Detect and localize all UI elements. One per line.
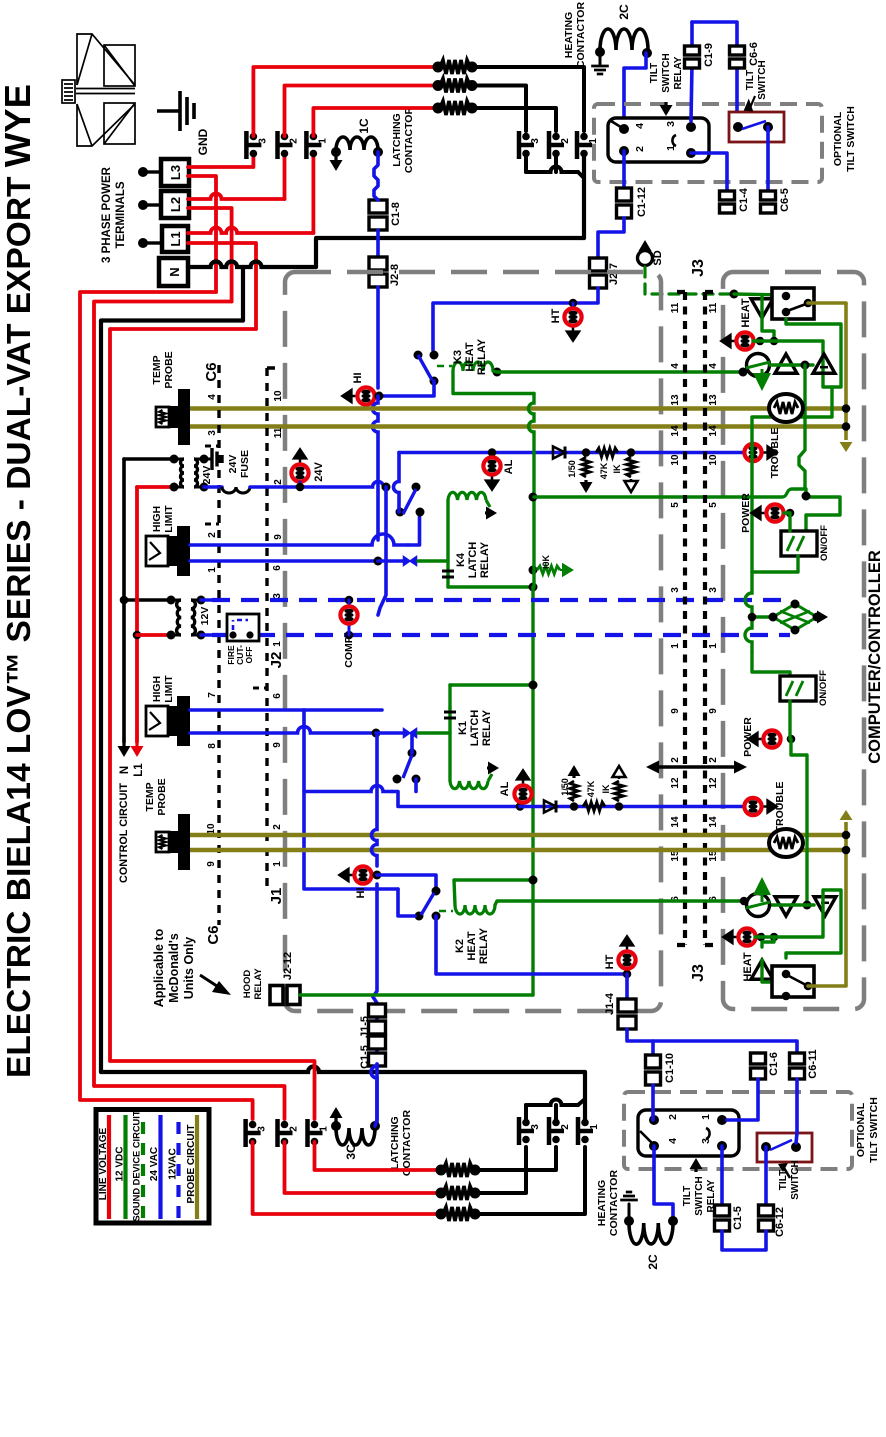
triangle connector (upper) bbox=[751, 299, 773, 318]
wire L1 to contact 1 (red) bbox=[188, 228, 313, 234]
svg-text:K3: K3 bbox=[452, 350, 464, 364]
legend SOUND DEVICE CIRCUIT (green dashed) bbox=[141, 1122, 145, 1219]
svg-text:TILT: TILT bbox=[682, 1186, 693, 1206]
svg-text:LIMIT: LIMIT bbox=[163, 675, 175, 703]
svg-text:6: 6 bbox=[272, 565, 283, 571]
wire 3C contact2 to heater row2 (red) bbox=[285, 1142, 442, 1193]
coil 3C bbox=[336, 1128, 375, 1145]
svg-text:9: 9 bbox=[206, 861, 217, 867]
svg-text:TERMINALS: TERMINALS bbox=[115, 181, 127, 248]
wire green drop hops rows A B bbox=[745, 572, 752, 652]
svg-text:11: 11 bbox=[670, 302, 681, 313]
triangle pair (upper) bbox=[775, 354, 797, 373]
svg-text:OFF: OFF bbox=[244, 647, 254, 664]
svg-text:2: 2 bbox=[634, 146, 646, 152]
wire contact1 to heater3 (red) bbox=[313, 108, 438, 136]
connector J1-5 bbox=[369, 1004, 386, 1017]
svg-text:8: 8 bbox=[207, 743, 218, 749]
svg-text:TILT SWITCH: TILT SWITCH bbox=[845, 106, 857, 172]
contact 2C-1 bbox=[575, 131, 580, 159]
svg-text:1: 1 bbox=[670, 643, 681, 649]
svg-text:2: 2 bbox=[289, 138, 300, 144]
wire heat cluster drop (green) bbox=[752, 387, 832, 572]
fan / blower symbol bbox=[62, 34, 135, 146]
connector C1-10 bbox=[646, 1055, 661, 1068]
ground GND bbox=[157, 109, 180, 112]
tilt switch (bottom, maroon box) bbox=[757, 1133, 812, 1162]
relay box (upper computer) bbox=[772, 288, 814, 319]
svg-text:ON/OFF: ON/OFF bbox=[819, 525, 830, 561]
wire K3 coil output row 372 (green) bbox=[493, 368, 502, 377]
svg-text:4: 4 bbox=[667, 1138, 679, 1144]
wire relay box lower to olive bbox=[808, 984, 846, 988]
svg-text:RELAY: RELAY bbox=[253, 968, 264, 1000]
svg-text:1: 1 bbox=[588, 138, 599, 144]
svg-text:2: 2 bbox=[272, 824, 283, 830]
ground at 24V transformer bbox=[204, 458, 211, 461]
wire J2 pin2 routing arrow (black) bbox=[656, 765, 737, 769]
heater element 4 (bottom) bbox=[436, 1165, 447, 1176]
svg-text:47K: 47K bbox=[599, 462, 609, 479]
wire relay pin2 to C1-12 (blue) bbox=[622, 151, 626, 189]
legend 12VAC (blue dashed) bbox=[176, 1122, 180, 1219]
svg-text:TILT SWITCH: TILT SWITCH bbox=[868, 1097, 880, 1163]
contact 2C-3 bottom bbox=[517, 1117, 522, 1145]
svg-text:14: 14 bbox=[670, 816, 681, 828]
svg-text:SD: SD bbox=[652, 250, 664, 265]
svg-text:K2: K2 bbox=[454, 939, 466, 953]
contact 2C-2 bbox=[547, 131, 552, 159]
svg-text:ON/OFF: ON/OFF bbox=[818, 670, 829, 706]
high limit thermostat (upper) bbox=[177, 526, 190, 576]
svg-text:COMPUTER/CONTROLLER: COMPUTER/CONTROLLER bbox=[866, 550, 884, 764]
svg-text:J2: J2 bbox=[268, 652, 285, 669]
svg-text:Applicable to: Applicable to bbox=[152, 928, 166, 1007]
svg-text:TILT: TILT bbox=[649, 63, 660, 83]
wire K2 NC stub (blue) bbox=[398, 889, 415, 916]
wire heater3 to 2C contact 2 (black) bbox=[472, 108, 556, 131]
contact 2C-3 bbox=[517, 131, 522, 159]
fuse 24V (wavy) bbox=[204, 485, 222, 489]
svg-text:OPTIONAL: OPTIONAL bbox=[855, 1102, 867, 1157]
wire K2 coil left leg (green) bbox=[454, 880, 533, 905]
triangle pair (lower) bbox=[775, 897, 797, 916]
wire relay box pin to olive drop bbox=[808, 301, 846, 305]
svg-text:9: 9 bbox=[670, 708, 681, 714]
wire 3C contact1 to heater row1 (red) bbox=[315, 1142, 442, 1170]
svg-text:3: 3 bbox=[700, 1138, 712, 1144]
svg-text:1/50: 1/50 bbox=[567, 460, 577, 478]
wire N feed to transformers (black) bbox=[124, 457, 174, 461]
wire J2-7 to K3 switch (blue) bbox=[433, 288, 598, 350]
svg-text:J1-4: J1-4 bbox=[604, 992, 616, 1015]
svg-text:C1-9: C1-9 bbox=[703, 43, 715, 67]
wire 12VAC row B (blue dashed) bbox=[201, 633, 212, 637]
svg-text:11: 11 bbox=[273, 427, 284, 438]
svg-text:COMP: COMP bbox=[343, 636, 355, 668]
wire heat lower row (green) bbox=[755, 890, 841, 958]
C6 branch stubs (dashed) bbox=[205, 446, 267, 688]
svg-text:HI: HI bbox=[352, 373, 364, 384]
wire HI2 to K2 switch (blue) bbox=[377, 875, 436, 889]
svg-text:9: 9 bbox=[272, 742, 283, 748]
wire J2-8 down to HI junction (blue) bbox=[376, 287, 380, 388]
transformer 24V bbox=[181, 459, 185, 487]
svg-text:L1: L1 bbox=[133, 763, 145, 777]
svg-text:C1-6: C1-6 bbox=[768, 1052, 780, 1076]
svg-text:J3: J3 bbox=[690, 964, 707, 982]
wire triangles to 5-row (green) bbox=[799, 365, 805, 489]
heater symbol in oval (lower) bbox=[769, 829, 803, 857]
svg-text:12: 12 bbox=[670, 777, 681, 789]
wire C1-6 to relay pin1 (blue) bbox=[727, 1079, 758, 1120]
heater element 6 bbox=[436, 1209, 447, 1220]
wire N trunk (black) bbox=[188, 262, 316, 268]
wire contact2 to heater2 (red) bbox=[285, 86, 439, 137]
svg-text:HEATING: HEATING bbox=[563, 12, 575, 58]
svg-text:2: 2 bbox=[708, 757, 719, 763]
heater element 3 bbox=[433, 103, 444, 114]
svg-text:POWER: POWER bbox=[740, 493, 752, 533]
wire high limit 2 bottom (blue) bbox=[190, 727, 376, 734]
svg-text:10: 10 bbox=[708, 454, 719, 466]
wire power lower to triangles (green) bbox=[791, 739, 807, 905]
svg-text:SWITCH: SWITCH bbox=[661, 53, 672, 92]
svg-text:I0K: I0K bbox=[541, 555, 551, 570]
contact 2C-2 bottom bbox=[547, 1117, 552, 1145]
switch K4 (blue) bbox=[382, 483, 391, 492]
connector C1-8 bbox=[369, 200, 387, 213]
svg-text:13: 13 bbox=[708, 394, 719, 406]
svg-text:RELAY: RELAY bbox=[673, 56, 684, 89]
dashed box control circuit bbox=[285, 272, 661, 1011]
connector line J3 right (dashed) bbox=[705, 292, 718, 945]
svg-text:2: 2 bbox=[273, 479, 284, 485]
svg-text:LINE VOLTAGE: LINE VOLTAGE bbox=[98, 1127, 109, 1200]
svg-text:IK: IK bbox=[601, 784, 611, 794]
dashed box optional tilt switch (bottom) bbox=[624, 1092, 852, 1169]
diamond bridge (12VAC) bbox=[752, 615, 773, 618]
resistor 47K (lower) bbox=[583, 802, 605, 811]
svg-text:OPTIONAL: OPTIONAL bbox=[832, 111, 844, 166]
wire hood relay row (green) bbox=[300, 993, 533, 996]
coil K1 latch relay (green) bbox=[448, 708, 451, 781]
lamp COMP bbox=[345, 596, 354, 605]
contact 1C-1 bbox=[304, 131, 309, 159]
svg-text:C1-10: C1-10 bbox=[664, 1053, 676, 1083]
switch K3 (blue) bbox=[414, 351, 423, 360]
wire relay pin1 to C1-4 (blue) bbox=[691, 153, 727, 193]
svg-text:LATCH: LATCH bbox=[467, 542, 479, 579]
svg-text:TROUBLE: TROUBLE bbox=[769, 428, 781, 479]
wire SD to computer (green dashed) bbox=[645, 267, 734, 294]
wire fuse to K4 area (blue) with hop bbox=[250, 482, 386, 488]
wire tilt switch to C6-5 (blue) bbox=[766, 127, 770, 193]
wire K1 row (blue) bbox=[372, 729, 381, 738]
wire K2 output 6-row (green) bbox=[495, 901, 744, 905]
wire K1 green row (green) bbox=[450, 683, 533, 686]
lamp HEAT (upper) bbox=[736, 332, 753, 349]
SD sound device bbox=[643, 250, 646, 254]
svg-text:CONTACTOR: CONTACTOR bbox=[403, 107, 415, 174]
wire AL row to trouble lower (blue) bbox=[520, 805, 745, 809]
legend PROBE CIRCUIT (olive) bbox=[195, 1115, 199, 1219]
svg-text:47K: 47K bbox=[586, 780, 596, 797]
latch tick K1 (black) bbox=[444, 712, 456, 718]
svg-text:C6-12: C6-12 bbox=[774, 1207, 786, 1237]
switch K1 (blue) bbox=[393, 775, 402, 784]
wire blue to 3C coil bbox=[371, 1064, 377, 1126]
switch ON/OFF (upper) bbox=[781, 531, 817, 556]
svg-text:J2-12: J2-12 bbox=[282, 952, 294, 980]
contact 2C-1 bottom bbox=[576, 1117, 581, 1145]
legend 24 VAC (blue) bbox=[158, 1115, 162, 1219]
svg-text:L1: L1 bbox=[168, 231, 183, 246]
svg-text:12VAC: 12VAC bbox=[168, 1148, 179, 1180]
heater element 1 (top) bbox=[433, 62, 444, 73]
svg-text:10: 10 bbox=[273, 390, 284, 402]
heater element 5 bbox=[436, 1188, 447, 1199]
svg-text:N: N bbox=[119, 766, 131, 774]
svg-text:HEATING: HEATING bbox=[596, 1180, 608, 1226]
svg-text:C6: C6 bbox=[205, 925, 222, 944]
legend 12 VDC (green) bbox=[123, 1115, 127, 1219]
svg-text:L2: L2 bbox=[168, 197, 183, 212]
svg-text:6: 6 bbox=[272, 693, 283, 699]
triangle connector (lower) bbox=[751, 960, 773, 979]
wire high limit 2 branch down (blue) bbox=[304, 710, 398, 889]
svg-text:1: 1 bbox=[589, 1124, 600, 1130]
connector C6-12 bbox=[759, 1205, 774, 1216]
connector J2-8 bbox=[369, 257, 387, 270]
svg-text:J2-8: J2-8 bbox=[389, 264, 401, 286]
svg-text:3: 3 bbox=[530, 1124, 541, 1130]
svg-text:LATCHING: LATCHING bbox=[389, 1116, 401, 1169]
terminal N bbox=[159, 258, 188, 286]
wire main blue vertical lower bbox=[372, 733, 378, 866]
wire 24V row to trouble (blue) bbox=[399, 451, 745, 455]
wire bowtie to K4 leg (green) bbox=[418, 559, 448, 562]
coil 2C heating contactor (bottom) bbox=[629, 1223, 673, 1244]
svg-text:PROBE: PROBE bbox=[163, 351, 175, 388]
wire bowtie to K1 leg (green) bbox=[418, 731, 450, 734]
latch tick K4 (black) bbox=[442, 571, 454, 577]
lamp HI (lower) bbox=[354, 866, 371, 883]
heater element 2 bbox=[433, 80, 444, 91]
svg-text:POWER: POWER bbox=[742, 717, 754, 757]
ground at 2C coil bottom bbox=[628, 1204, 631, 1221]
svg-text:J1: J1 bbox=[268, 888, 285, 905]
wire probe circuit upper line 1 (olive) bbox=[190, 406, 843, 411]
ground at 2C coil bbox=[599, 56, 602, 64]
coil K3 heat relay (green) bbox=[453, 362, 493, 371]
svg-text:LIMIT: LIMIT bbox=[163, 505, 175, 533]
lamp AL (lower) bbox=[516, 802, 525, 811]
svg-text:10: 10 bbox=[670, 454, 681, 466]
svg-text:14: 14 bbox=[670, 425, 681, 437]
resistor 1/50 (lower) bbox=[570, 802, 579, 811]
svg-text:L3: L3 bbox=[168, 165, 183, 180]
svg-text:RELAY: RELAY bbox=[476, 338, 488, 375]
mech link K2 (green dashed) bbox=[439, 910, 453, 913]
circle indicator (lower) bbox=[747, 894, 770, 917]
wire 1C coil to C1-8 to J2-8 (blue) bbox=[374, 152, 378, 200]
wire C1-10 to relay pin2 (blue) bbox=[651, 1085, 655, 1120]
wire heater6 to 2C contact 1 bottom (black) bbox=[475, 1147, 585, 1214]
svg-text:C1-5: C1-5 bbox=[732, 1206, 744, 1230]
svg-text:1/50: 1/50 bbox=[560, 778, 570, 796]
wire red3 left vertical bbox=[110, 329, 315, 1119]
svg-text:1: 1 bbox=[207, 567, 218, 573]
svg-text:5: 5 bbox=[708, 502, 719, 508]
contact 1C-2 bbox=[275, 131, 280, 159]
svg-text:TEMP: TEMP bbox=[151, 355, 163, 384]
wire olive vertical (lower) bbox=[844, 822, 848, 986]
svg-text:12 VDC: 12 VDC bbox=[115, 1146, 126, 1181]
svg-text:HEAT: HEAT bbox=[464, 342, 476, 371]
wire main green vertical upper bbox=[529, 394, 535, 498]
connector line C6 (dotted) bbox=[217, 365, 220, 925]
wire black trunk to 2C bottom (black) bbox=[583, 1072, 587, 1122]
wire K4 D1 drop (blue) bbox=[378, 487, 386, 615]
wire olive vertical (upper) to probe lines bbox=[844, 303, 848, 440]
mech link K3 (green dashed) bbox=[437, 365, 452, 368]
svg-text:3: 3 bbox=[665, 121, 677, 127]
wire 3C coil to C1-5 (blue) bbox=[375, 1064, 377, 1126]
resistor 1K (upper) bbox=[627, 448, 636, 457]
connector C1-6 bbox=[751, 1053, 766, 1064]
relay box (lower computer) bbox=[772, 966, 814, 997]
wire heat row right (green) bbox=[753, 319, 841, 387]
svg-text:SWITCH: SWITCH bbox=[790, 1160, 801, 1199]
relay tilt switch relay (bottom) bbox=[638, 1110, 739, 1156]
svg-text:RELAY: RELAY bbox=[479, 541, 491, 578]
svg-text:LATCHING: LATCHING bbox=[391, 113, 403, 166]
wire L3 descent (red) bbox=[188, 176, 216, 292]
resistor 1/50 (upper) bbox=[582, 448, 591, 457]
wire heater4 to 2C contact 2 bottom (black) bbox=[475, 1147, 556, 1170]
svg-text:N: N bbox=[167, 267, 182, 276]
svg-text:1: 1 bbox=[317, 138, 328, 144]
svg-text:ELECTRIC BIELA14 LOV™ SERIES -: ELECTRIC BIELA14 LOV™ SERIES - DUAL-VAT … bbox=[0, 84, 38, 1078]
svg-text:1: 1 bbox=[665, 145, 677, 151]
svg-text:HEAT: HEAT bbox=[740, 298, 752, 327]
lamp HI (top) bbox=[357, 387, 374, 404]
connector C1-9 bbox=[691, 64, 692, 121]
svg-text:1C: 1C bbox=[357, 118, 371, 134]
lamp TROUBLE (upper) bbox=[744, 444, 761, 461]
terminal L1 bbox=[162, 226, 188, 252]
svg-text:2: 2 bbox=[560, 138, 571, 144]
terminal L2 bbox=[161, 191, 189, 218]
svg-text:4: 4 bbox=[634, 123, 646, 129]
wire 3C contact3 to heater row3 (red) bbox=[253, 1142, 441, 1214]
svg-text:1: 1 bbox=[319, 1126, 330, 1132]
wire probe circuit lower line 1 (olive) bbox=[190, 833, 843, 838]
lamp 24V bbox=[291, 464, 308, 481]
svg-text:3: 3 bbox=[670, 587, 681, 593]
svg-text:C1-4: C1-4 bbox=[738, 187, 750, 212]
svg-text:CONTACTOR: CONTACTOR bbox=[608, 1170, 620, 1237]
svg-text:11: 11 bbox=[708, 302, 719, 313]
wire probe circuit lower line 2 (olive) bbox=[190, 848, 843, 853]
svg-text:TILT: TILT bbox=[745, 70, 756, 90]
wire sd green to relay box (green) bbox=[734, 294, 786, 295]
resistor 1K (lower) bbox=[615, 802, 624, 811]
svg-text:9: 9 bbox=[273, 534, 284, 540]
wire high limit 1 top (blue) bbox=[190, 534, 408, 545]
svg-text:Units Only: Units Only bbox=[182, 937, 196, 1000]
contact 3C-2 bbox=[275, 1119, 280, 1147]
svg-text:SWITCH: SWITCH bbox=[694, 1176, 705, 1215]
svg-text:2: 2 bbox=[560, 1124, 571, 1130]
connector C1-12 bbox=[617, 188, 632, 201]
connector C6-11 bbox=[790, 1053, 805, 1064]
wire J1-4 down to C1-10/C6-11 (blue) bbox=[627, 1029, 797, 1055]
svg-text:SOUND DEVICE CIRCUIT: SOUND DEVICE CIRCUIT bbox=[132, 1110, 142, 1221]
svg-text:HEAT: HEAT bbox=[466, 931, 478, 960]
svg-text:24V: 24V bbox=[313, 462, 325, 482]
coil 2C heating contactor bbox=[600, 29, 648, 50]
svg-text:4: 4 bbox=[708, 363, 719, 369]
legend LINE VOLTAGE (red) bbox=[107, 1115, 111, 1219]
wire probe circuit upper line 2 (olive) bbox=[190, 424, 843, 429]
svg-text:5: 5 bbox=[670, 502, 681, 508]
coil K2 heat relay (green) bbox=[455, 905, 495, 914]
wire tilt switch to C6-12 (blue) bbox=[764, 1147, 768, 1207]
svg-text:CONTACTOR: CONTACTOR bbox=[575, 2, 587, 69]
svg-text:HIGH: HIGH bbox=[151, 506, 163, 532]
coil 1C bbox=[336, 137, 378, 150]
heater symbol in oval (upper) bbox=[769, 394, 803, 422]
wire on/off lower to power (green) bbox=[788, 701, 791, 739]
svg-text:3: 3 bbox=[257, 138, 268, 144]
relay tilt switch relay (top) bbox=[608, 118, 709, 162]
circle indicator (upper) bbox=[739, 368, 748, 377]
svg-text:1: 1 bbox=[272, 641, 283, 647]
wire L2 descent (red) bbox=[188, 208, 232, 302]
svg-text:7: 7 bbox=[207, 692, 218, 698]
svg-text:CONTROL CIRCUIT: CONTROL CIRCUIT bbox=[118, 783, 130, 883]
svg-text:3: 3 bbox=[530, 138, 541, 144]
wire 2C coil to tilt relay pin4 (blue) bbox=[624, 53, 646, 129]
lamp AL (upper) bbox=[488, 448, 497, 457]
resistor 47K (upper) bbox=[596, 448, 618, 457]
svg-text:McDonald's: McDonald's bbox=[167, 933, 181, 1003]
wire 2C bottom contact tops merge (black) bbox=[524, 1105, 528, 1122]
wire high limit 1 bottom (blue) bbox=[190, 559, 378, 563]
svg-text:4: 4 bbox=[670, 363, 681, 369]
wire L1 descent (red) bbox=[188, 243, 256, 329]
svg-text:IK: IK bbox=[612, 464, 622, 474]
svg-text:AL: AL bbox=[503, 459, 515, 474]
svg-text:2: 2 bbox=[207, 532, 218, 538]
contact 3C-3 bbox=[243, 1119, 248, 1147]
wire 12VAC row A (blue dashed) bbox=[201, 598, 212, 602]
svg-text:2C: 2C bbox=[646, 1254, 660, 1270]
svg-text:1: 1 bbox=[700, 1114, 712, 1120]
svg-text:PROBE CIRCUIT: PROBE CIRCUIT bbox=[186, 1125, 197, 1204]
temp probe (lower) bbox=[178, 814, 190, 870]
connector C6-5 bbox=[761, 191, 776, 200]
svg-text:24 VAC: 24 VAC bbox=[149, 1147, 160, 1181]
wire red1 left vertical bbox=[80, 292, 253, 1119]
connector J1-4 bbox=[618, 999, 636, 1012]
svg-text:3C: 3C bbox=[344, 1144, 358, 1160]
svg-text:4: 4 bbox=[207, 394, 218, 400]
svg-text:C1-8: C1-8 bbox=[390, 202, 402, 226]
wire blue vertical to J1-5 (blue) bbox=[373, 884, 377, 1064]
